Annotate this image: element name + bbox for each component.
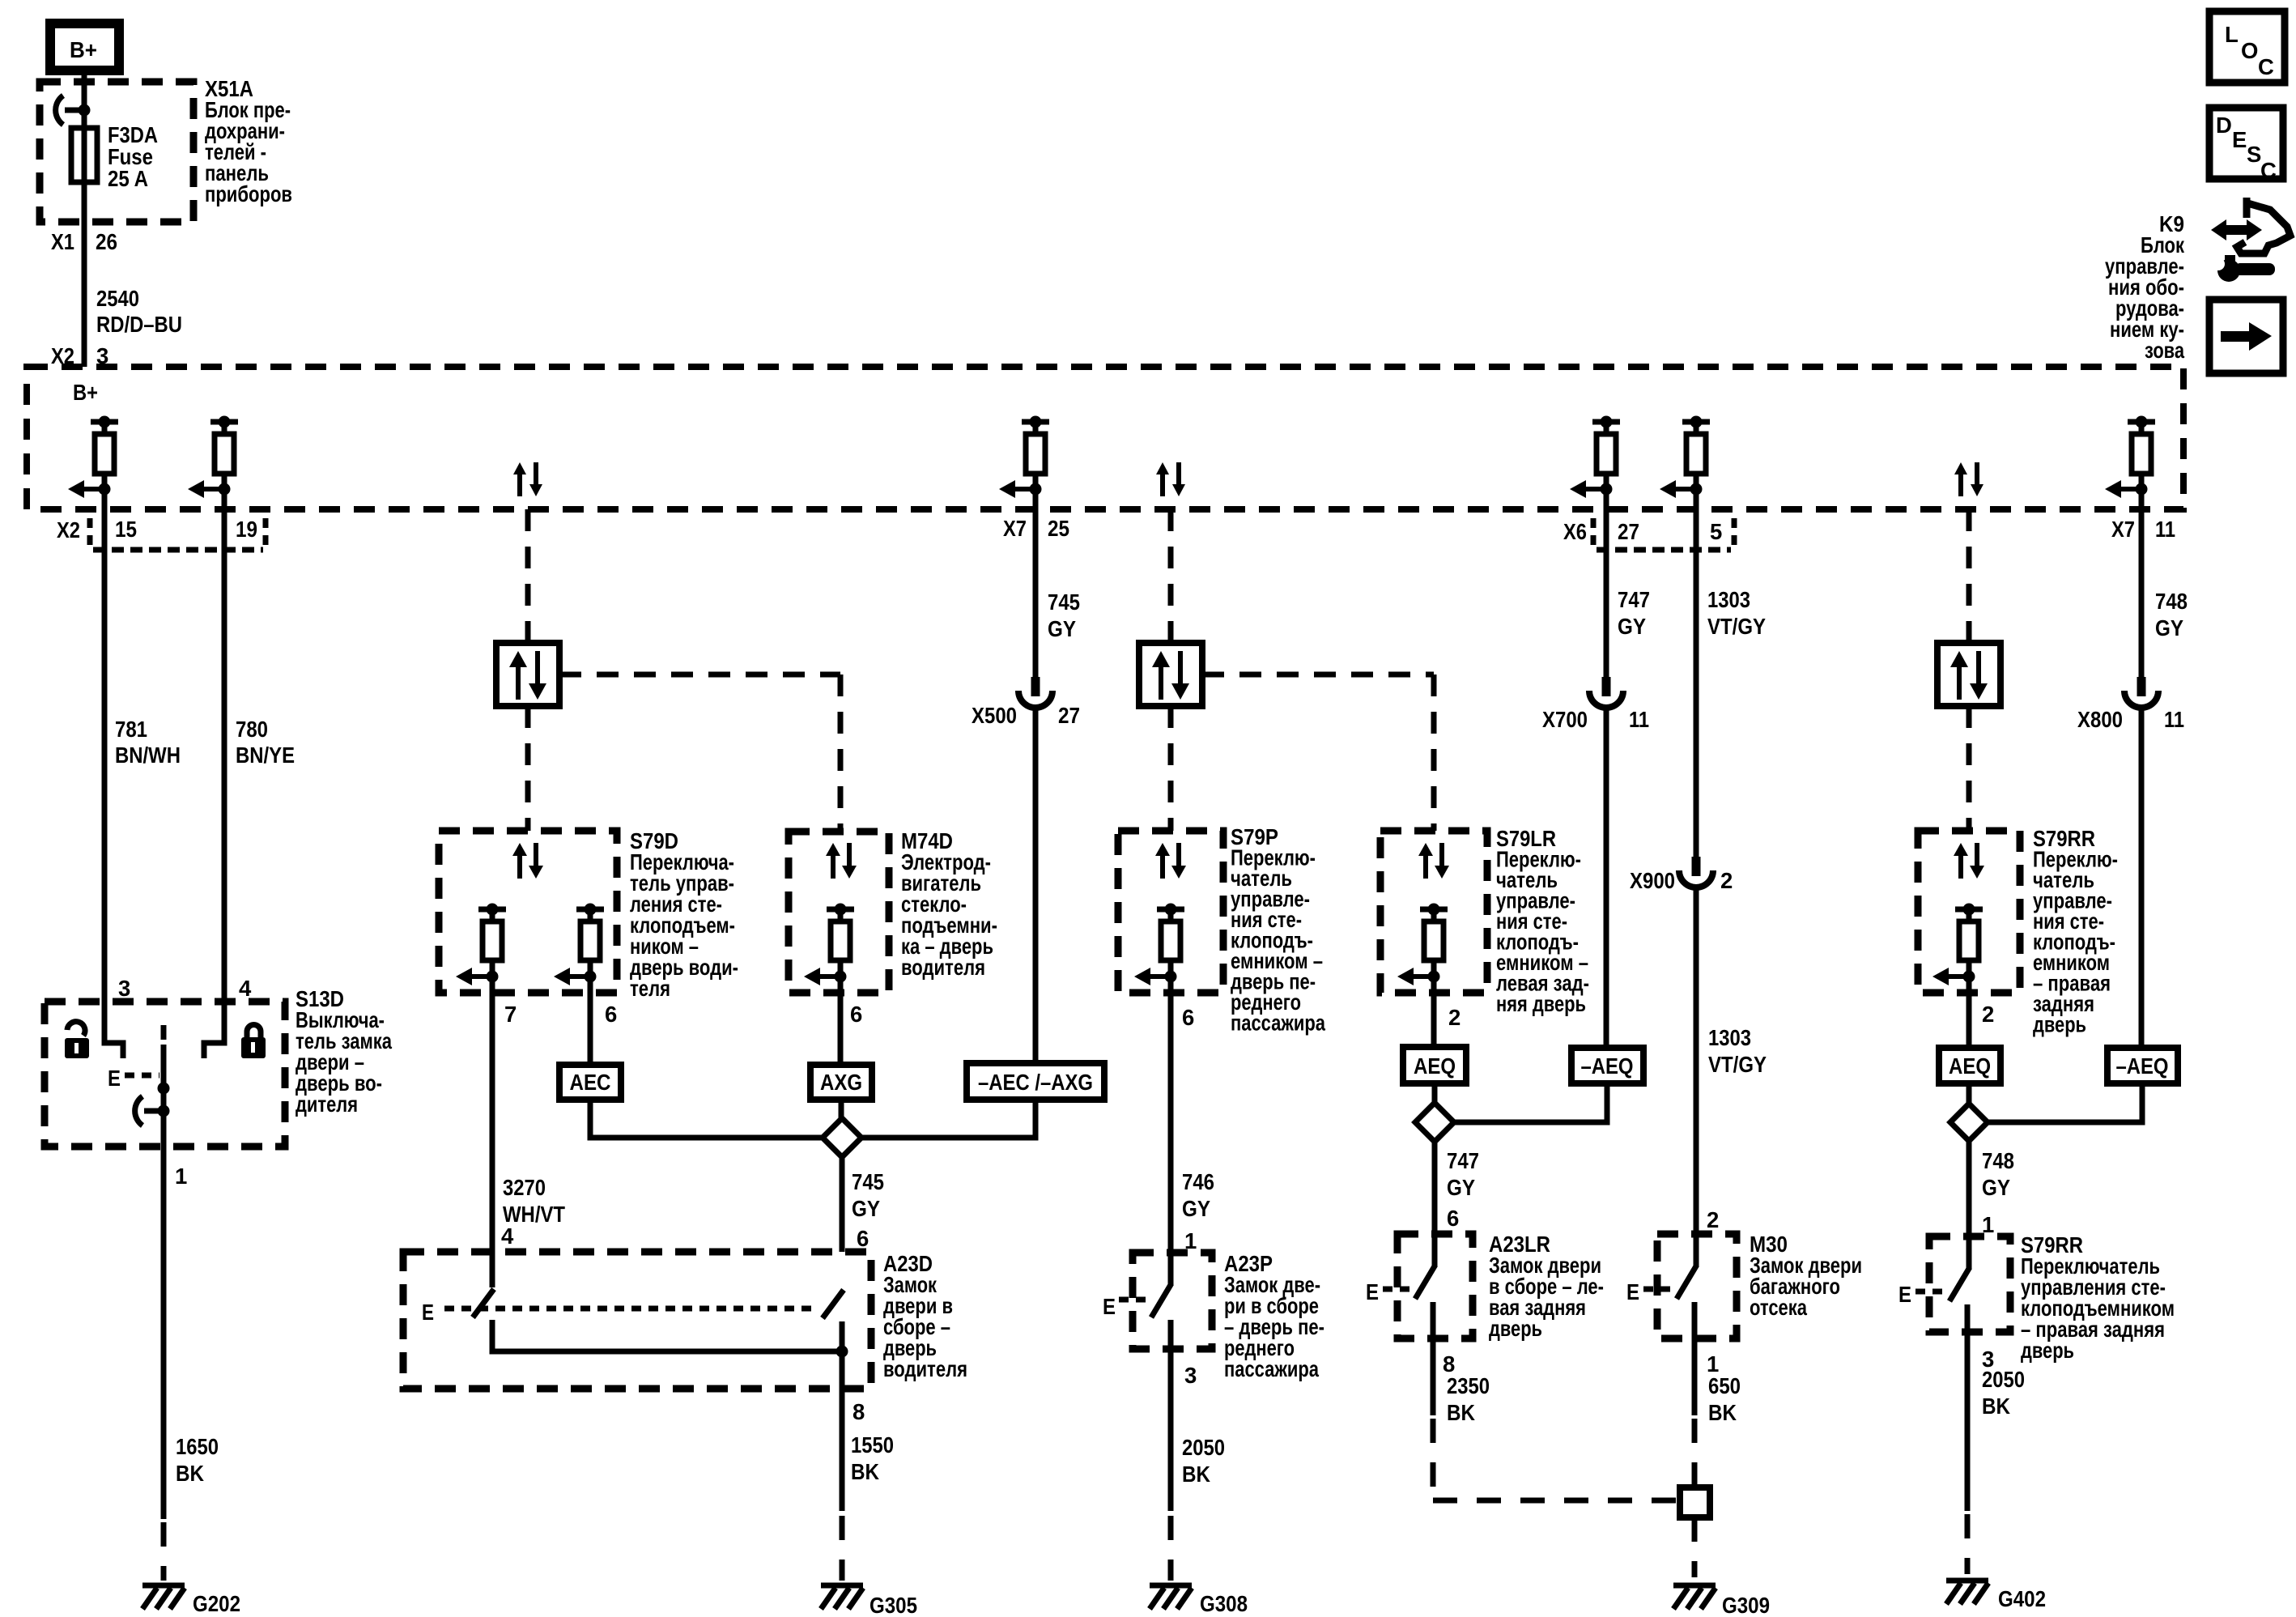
wire S79D pin6 to AEC — [588, 977, 593, 1065]
A23P E actuator — [1103, 1294, 1150, 1319]
svg-text:1303: 1303 — [1707, 587, 1750, 612]
S13D label — [296, 986, 393, 1117]
svg-text:X7: X7 — [2111, 517, 2135, 542]
svg-text:O: O — [2241, 38, 2258, 63]
K9 driver output pin X7-11 — [2105, 416, 2155, 499]
S79D driver pin 7 — [456, 904, 506, 986]
A23LR switch blade — [1415, 1234, 1435, 1299]
wire B+ to fuse block — [82, 70, 87, 367]
svg-text:S: S — [2247, 142, 2261, 167]
svg-text:2050: 2050 — [1182, 1435, 1225, 1460]
wire 2350 BK — [1431, 1302, 1436, 1415]
wire S79LR pin2 to AEQ — [1431, 977, 1437, 1047]
svg-text:781: 781 — [115, 717, 147, 742]
svg-text:3: 3 — [1184, 1363, 1197, 1388]
svg-text:AEQ: AEQ — [1949, 1053, 1991, 1079]
svg-text:теля: теля — [630, 976, 670, 1001]
svg-text:15: 15 — [115, 517, 137, 542]
svg-text:пассажира: пассажира — [1224, 1356, 1320, 1381]
svg-text:B+: B+ — [73, 380, 98, 405]
svg-text:G305: G305 — [870, 1593, 917, 1617]
K9 driver output pin X2-19 — [188, 416, 238, 499]
K9 window up-down signal S79RR — [1954, 462, 1983, 496]
unlock padlock icon — [65, 1022, 89, 1058]
svg-text:1550: 1550 — [851, 1432, 894, 1457]
wire 2050 BK right — [1965, 1304, 1971, 1511]
svg-text:2540: 2540 — [96, 286, 139, 311]
M30 switch blade — [1677, 1234, 1697, 1299]
S79RR up-down arrows — [1954, 843, 1984, 879]
svg-text:1650: 1650 — [176, 1434, 219, 1459]
svg-text:отсека: отсека — [1750, 1295, 1808, 1320]
svg-text:3: 3 — [118, 976, 130, 1001]
K9 driver output pin X6-5 — [1660, 416, 1710, 499]
svg-text:BK: BK — [1447, 1400, 1475, 1425]
A23D label — [883, 1251, 967, 1381]
S13D movable contact — [135, 1045, 170, 1147]
svg-text:11: 11 — [1629, 707, 1649, 732]
svg-text:6: 6 — [857, 1226, 869, 1251]
svg-text:водителя: водителя — [901, 955, 985, 980]
fuse block X51A dashed box — [40, 82, 193, 222]
svg-text:E: E — [108, 1066, 121, 1091]
K9 driver output pin X2-15 — [68, 416, 118, 499]
svg-text:GY: GY — [2155, 615, 2183, 640]
svg-text:няя дверь: няя дверь — [1496, 991, 1586, 1016]
A23D internal wire — [492, 1320, 848, 1358]
svg-text:E: E — [1898, 1282, 1911, 1307]
net AEQ box right — [1939, 1048, 2000, 1083]
S79RR lock E actuator — [1898, 1282, 1946, 1307]
svg-text:7: 7 — [504, 1002, 517, 1027]
svg-text:745: 745 — [1048, 589, 1080, 615]
wire M74D pin6 to AXG — [838, 977, 844, 1065]
S13D lock switch dashed box — [45, 1002, 285, 1147]
dashed wire box to S79RR — [1966, 706, 1972, 831]
K9 driver output pin X7-25 — [999, 416, 1049, 499]
A23LR label — [1489, 1232, 1604, 1341]
wire 650 BK — [1692, 1302, 1698, 1415]
svg-text:6: 6 — [1447, 1206, 1459, 1231]
svg-text:BN/WH: BN/WH — [115, 743, 181, 768]
dashed wire K9 to up-down box S79P — [1168, 509, 1174, 643]
S79RR window switch dashed box — [1918, 831, 2020, 993]
svg-text:BK: BK — [1182, 1462, 1210, 1487]
connector X1 pin 26 — [51, 229, 117, 254]
svg-text:VT/GY: VT/GY — [1707, 614, 1766, 639]
wire 1550 BK — [840, 1321, 845, 1511]
A23P door lock dashed box — [1133, 1253, 1212, 1349]
svg-text:AEQ: AEQ — [1414, 1053, 1456, 1079]
inline connector X700 pin 11 — [1589, 677, 1623, 708]
M74D up-down arrows — [826, 843, 857, 879]
svg-text:G402: G402 — [1998, 1586, 2046, 1611]
svg-text:X6: X6 — [1563, 519, 1587, 544]
wire 745 GY from X7-25 — [1033, 489, 1039, 677]
ground G202 — [142, 1585, 185, 1609]
dashed wire box to S79LR — [1202, 674, 1434, 831]
K9 label — [2105, 211, 2185, 363]
S79LR up-down arrows — [1418, 843, 1449, 879]
svg-text:2: 2 — [1448, 1005, 1461, 1030]
battery B+ terminal — [50, 23, 119, 70]
net AEC box — [559, 1065, 621, 1100]
wire 745 GY to A23D — [840, 1157, 845, 1252]
svg-text:11: 11 — [2155, 517, 2175, 542]
S79P driver pin 6 — [1134, 904, 1184, 986]
svg-text:1303: 1303 — [1708, 1025, 1751, 1050]
connector X6 pins 27 5 — [1563, 518, 1734, 550]
svg-text:X700: X700 — [1542, 707, 1588, 732]
M74D label — [901, 828, 997, 980]
A23LR E actuator — [1366, 1279, 1414, 1304]
wire -AEQ to splice — [1988, 1083, 2142, 1122]
svg-text:27: 27 — [1058, 703, 1080, 728]
svg-text:27: 27 — [1618, 519, 1639, 544]
svg-text:X900: X900 — [1630, 868, 1675, 893]
svg-text:водителя: водителя — [883, 1356, 967, 1381]
wire AXG to splice — [839, 1100, 844, 1118]
svg-text:G309: G309 — [1722, 1593, 1770, 1617]
wire 748 GY from X7-11 — [2139, 489, 2145, 677]
svg-text:8: 8 — [852, 1399, 865, 1424]
K9 window up-down signal S79D — [513, 462, 542, 496]
connector service icon — [2211, 198, 2290, 253]
S79P label — [1231, 824, 1326, 1036]
wire S79RR pin2 to AEQ — [1966, 977, 1972, 1048]
wire 3270 WH/VT — [490, 977, 495, 1287]
M74D driver pin 6 — [804, 904, 854, 986]
svg-text:748: 748 — [2155, 589, 2188, 614]
svg-text:L: L — [2225, 22, 2239, 47]
svg-text:E: E — [1366, 1279, 1379, 1304]
wire 748 GY to lock switch — [1966, 1141, 1972, 1236]
S79LR driver pin 2 — [1397, 904, 1448, 986]
ground G309 — [1673, 1585, 1716, 1609]
S79P window switch dashed box — [1118, 831, 1223, 993]
connector X7 pin 11 — [2111, 517, 2175, 542]
splice pack box — [1680, 1487, 1710, 1517]
splice diamond 747 — [1415, 1103, 1454, 1142]
connector X2 pin 3 — [51, 343, 108, 368]
M30 trunk lock dashed box — [1657, 1234, 1737, 1338]
net -AEC -AXG box — [967, 1063, 1104, 1100]
up-down symbol box S79P — [1139, 643, 1202, 706]
svg-text:25: 25 — [1048, 516, 1069, 541]
svg-text:4: 4 — [501, 1223, 514, 1249]
svg-text:6: 6 — [850, 1002, 862, 1027]
svg-text:747: 747 — [1618, 587, 1650, 612]
svg-text:D: D — [2216, 113, 2232, 138]
lock padlock icon — [241, 1025, 266, 1059]
A23D switch blade right — [823, 1290, 844, 1318]
wire 746 GY — [1168, 977, 1174, 1253]
svg-text:2: 2 — [1707, 1207, 1719, 1232]
inline connector X900 pin 2 — [1679, 857, 1713, 887]
A23P switch blade — [1151, 1253, 1171, 1317]
net AXG box — [810, 1065, 872, 1100]
up-down symbol box S79D — [496, 643, 559, 706]
svg-text:GY: GY — [1182, 1196, 1210, 1221]
svg-text:BK: BK — [176, 1461, 204, 1486]
svg-text:дверь: дверь — [1489, 1316, 1542, 1341]
svg-text:AXG: AXG — [820, 1070, 862, 1095]
wire 747 GY to A23LR — [1432, 1142, 1438, 1234]
splice diamond 748 — [1950, 1104, 1988, 1141]
S79D window switch dashed box — [439, 831, 617, 993]
S79RR lock switch dashed box — [1929, 1236, 2010, 1332]
ground G305 — [821, 1585, 863, 1609]
S79LR label — [1496, 826, 1589, 1016]
inline connector X800 pin 11 — [2124, 677, 2158, 708]
ground G402 — [1946, 1581, 1988, 1604]
dashed wire box to S79D — [525, 706, 531, 831]
svg-text:6: 6 — [1182, 1005, 1194, 1030]
svg-text:дверь: дверь — [2021, 1338, 2074, 1363]
svg-text:746: 746 — [1182, 1169, 1214, 1194]
DESC reference box — [2209, 108, 2283, 183]
S13D switch actuator E linkage — [108, 1025, 164, 1091]
net -AEQ box right — [2107, 1048, 2178, 1083]
svg-text:BK: BK — [1982, 1394, 2010, 1419]
svg-text:пассажира: пассажира — [1231, 1011, 1326, 1036]
svg-text:2: 2 — [1720, 868, 1733, 893]
A23D E actuator — [422, 1300, 816, 1325]
net -AEQ box left — [1571, 1048, 1643, 1083]
svg-text:GY: GY — [1447, 1175, 1475, 1200]
svg-text:780: 780 — [236, 717, 268, 742]
S79LR window switch dashed box — [1380, 831, 1487, 993]
svg-text:4: 4 — [239, 976, 252, 1001]
svg-text:B+: B+ — [70, 37, 97, 62]
svg-text:X7: X7 — [1003, 516, 1027, 541]
svg-text:BK: BK — [1708, 1400, 1737, 1425]
wire 2050 BK — [1168, 1320, 1174, 1511]
wire 1650 BK — [161, 1147, 167, 1519]
svg-text:1: 1 — [175, 1164, 187, 1189]
connector X7 pin 25 — [1003, 516, 1069, 541]
svg-text:GY: GY — [1982, 1175, 2010, 1200]
svg-text:11: 11 — [2164, 707, 2184, 732]
wire 780 BN/YE — [204, 489, 224, 1058]
K9 driver output pin X6-27 — [1570, 416, 1620, 499]
svg-text:X2: X2 — [57, 517, 80, 543]
svg-text:E: E — [2232, 127, 2247, 152]
label F3DA Fuse 25 A — [108, 122, 158, 191]
svg-text:VT/GY: VT/GY — [1708, 1052, 1767, 1077]
svg-text:RD/D–BU: RD/D–BU — [96, 312, 182, 337]
fuse F3DA 25A — [71, 128, 97, 182]
svg-text:GY: GY — [852, 1196, 880, 1221]
wire 2540 RD/D-BU — [96, 286, 182, 337]
svg-text:G308: G308 — [1200, 1591, 1248, 1616]
svg-text:X800: X800 — [2077, 707, 2123, 732]
A23D switch blade left — [473, 1289, 494, 1317]
S79D up-down arrows — [512, 843, 543, 879]
S79D label — [630, 828, 738, 1001]
dashed wire K9 to up-down box S79D — [525, 509, 531, 643]
A23D door lock assembly dashed box — [403, 1252, 871, 1389]
wrench icon — [2212, 255, 2275, 282]
wire AEQ to splice — [1432, 1083, 1438, 1103]
svg-text:GY: GY — [1048, 616, 1076, 641]
svg-text:приборов: приборов — [205, 181, 292, 206]
inline connector X500 pin 27 — [1018, 677, 1052, 708]
svg-text:745: 745 — [852, 1169, 884, 1194]
dashed wire box to S79P — [1168, 706, 1174, 831]
svg-text:–AEQ: –AEQ — [1581, 1053, 1634, 1079]
ground G308 — [1150, 1585, 1192, 1609]
M30 E actuator — [1626, 1279, 1674, 1304]
S79RR label — [2033, 826, 2118, 1037]
svg-text:6: 6 — [605, 1002, 617, 1027]
svg-text:X500: X500 — [972, 703, 1017, 728]
dashed wire A23LR to splice pack — [1433, 1498, 1677, 1504]
dashed wire box to M74D — [559, 674, 840, 832]
S79RR lock label — [2021, 1232, 2175, 1363]
K9 window up-down signal S79P — [1156, 462, 1185, 496]
A23P label — [1224, 1251, 1324, 1381]
svg-text:5: 5 — [1710, 519, 1722, 544]
dashed wire K9 to up-down box S79RR — [1966, 509, 1972, 643]
splice diamond 745 — [823, 1118, 861, 1157]
svg-text:748: 748 — [1982, 1148, 2014, 1173]
svg-text:650: 650 — [1708, 1373, 1741, 1398]
svg-text:C: C — [2260, 158, 2277, 183]
wire 781 BN/WH — [104, 489, 123, 1058]
svg-text:зова: зова — [2145, 338, 2185, 363]
svg-text:G202: G202 — [193, 1591, 240, 1616]
svg-text:E: E — [1103, 1294, 1116, 1319]
svg-text:–AEQ: –AEQ — [2116, 1053, 2169, 1079]
S79D driver pin 6 — [554, 904, 604, 986]
forward arrow box — [2209, 300, 2283, 373]
svg-text:–AEC /–AXG: –AEC /–AXG — [978, 1070, 1093, 1095]
LOC reference box — [2209, 11, 2285, 83]
svg-text:2: 2 — [1982, 1002, 1994, 1027]
S79P up-down arrows — [1155, 843, 1186, 879]
net AEQ box left — [1403, 1047, 1466, 1083]
svg-text:747: 747 — [1447, 1148, 1479, 1173]
K9 body control module dashed box — [27, 367, 2183, 509]
svg-text:BN/YE: BN/YE — [236, 743, 295, 768]
svg-text:X1: X1 — [51, 229, 74, 254]
up-down symbol box S79RR — [1937, 643, 2000, 706]
label X51A fuse block — [205, 76, 292, 206]
svg-text:дверь: дверь — [2033, 1012, 2086, 1037]
svg-text:C: C — [2258, 54, 2274, 79]
wire 747 GY from X6-27 — [1604, 489, 1609, 677]
svg-text:26: 26 — [96, 229, 117, 254]
svg-text:BK: BK — [851, 1459, 879, 1484]
M30 label — [1750, 1232, 1862, 1320]
svg-text:2050: 2050 — [1982, 1367, 2025, 1392]
wire -AEQ to splice left — [1454, 1083, 1607, 1122]
M74D window motor dashed box — [789, 832, 889, 993]
svg-text:E: E — [1626, 1279, 1639, 1304]
wire 1303 VT/GY from X6-5 — [1694, 489, 1699, 857]
wire AEQ to splice — [1966, 1083, 1972, 1104]
S79RR driver pin 2 — [1932, 904, 1983, 986]
svg-text:3270: 3270 — [503, 1175, 546, 1200]
wire -AEC to splice — [861, 1100, 1035, 1138]
wire AEC to splice — [590, 1100, 823, 1138]
svg-text:25 A: 25 A — [108, 166, 148, 191]
svg-text:2350: 2350 — [1447, 1373, 1490, 1398]
bus tap hook in fuse block — [56, 96, 91, 125]
svg-text:GY: GY — [1618, 614, 1646, 639]
svg-text:19: 19 — [236, 517, 257, 542]
A23LR door lock dashed box — [1397, 1234, 1473, 1338]
svg-text:AEC: AEC — [570, 1070, 611, 1095]
connector X2 pins 15 19 — [57, 517, 266, 550]
S79RR lock switch blade — [1949, 1236, 1970, 1301]
svg-text:E: E — [422, 1300, 434, 1325]
svg-text:дителя: дителя — [296, 1091, 358, 1117]
